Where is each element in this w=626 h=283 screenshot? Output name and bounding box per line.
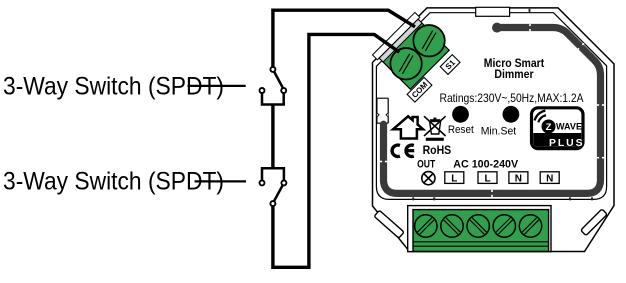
svg-text:RoHS: RoHS [423,144,452,157]
svg-text:AC 100-240V: AC 100-240V [453,159,519,171]
svg-text:N: N [546,173,553,184]
svg-text:Ratings:230V~,50Hz,MAX:1.2A: Ratings:230V~,50Hz,MAX:1.2A [440,91,584,105]
svg-text:OUT: OUT [417,159,435,171]
svg-text:Reset: Reset [448,124,475,136]
svg-text:Z: Z [546,122,552,133]
svg-text:L: L [484,173,490,184]
svg-text:3-Way Switch (SPDT): 3-Way Switch (SPDT) [3,168,224,196]
svg-text:PLUS: PLUS [549,138,583,149]
svg-text:Dimmer: Dimmer [494,69,534,81]
svg-text:N: N [515,173,522,184]
svg-text:L: L [451,173,457,184]
svg-text:WAVE: WAVE [556,121,582,131]
svg-text:Min.Set: Min.Set [481,125,517,137]
